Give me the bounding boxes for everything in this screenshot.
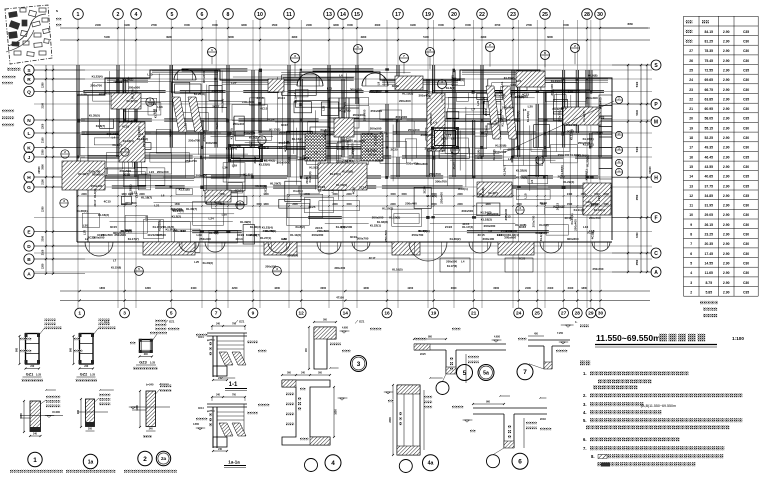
svg-text:3000: 3000 (493, 286, 499, 290)
svg-text:2C19: 2C19 (540, 201, 548, 205)
svg-text:KL11(4): KL11(4) (574, 208, 585, 212)
svg-text:KL6(9): KL6(9) (539, 223, 548, 227)
svg-text:200x600: 200x600 (370, 89, 382, 93)
svg-text:L6: L6 (161, 194, 165, 198)
svg-text:L26: L26 (284, 140, 290, 144)
svg-text:2.90: 2.90 (723, 146, 730, 150)
svg-text:1500: 1500 (175, 203, 181, 206)
svg-text:3900: 3900 (42, 164, 45, 170)
svg-text:75.45: 75.45 (705, 59, 714, 63)
svg-text:KL25(6): KL25(6) (342, 169, 353, 173)
svg-text:5100: 5100 (423, 35, 429, 39)
svg-text:L11: L11 (500, 81, 504, 86)
svg-text:KL38(6): KL38(6) (560, 165, 564, 176)
svg-text:29: 29 (588, 311, 594, 317)
svg-text:KL18(5): KL18(5) (229, 128, 233, 139)
svg-text:KL1(2): KL1(2) (209, 231, 218, 235)
svg-text:2.90: 2.90 (723, 165, 730, 169)
svg-text:L30: L30 (83, 224, 89, 228)
svg-text:GZ3: GZ3 (139, 361, 146, 365)
svg-text:L13: L13 (327, 87, 333, 91)
svg-text:11: 11 (689, 204, 693, 208)
svg-text:3: 3 (123, 311, 126, 317)
svg-text:2300: 2300 (389, 417, 392, 423)
svg-text:37.75: 37.75 (705, 184, 714, 188)
svg-text:7: 7 (215, 311, 218, 317)
svg-text:L13: L13 (134, 193, 138, 199)
svg-text:250x400: 250x400 (233, 122, 245, 126)
svg-text:300x600: 300x600 (202, 71, 206, 83)
svg-text:27: 27 (561, 311, 567, 317)
svg-text:L22: L22 (497, 233, 503, 237)
svg-text:L22: L22 (451, 136, 457, 140)
svg-text:3C25: 3C25 (308, 205, 316, 209)
svg-text:4C23: 4C23 (494, 119, 502, 123)
svg-text:250x600: 250x600 (370, 109, 382, 113)
svg-text:6.: 6. (583, 437, 587, 442)
svg-text:J: J (28, 155, 31, 161)
svg-text:C35: C35 (743, 184, 749, 188)
svg-text:L4: L4 (112, 135, 116, 139)
svg-text:KL11(9): KL11(9) (569, 129, 573, 140)
svg-text:KL26(8): KL26(8) (194, 92, 205, 96)
svg-text:19: 19 (689, 126, 693, 130)
svg-text:2400: 2400 (567, 193, 573, 196)
svg-text:43.55: 43.55 (705, 165, 714, 169)
svg-text:L21: L21 (561, 106, 567, 110)
svg-text:1900: 1900 (124, 23, 130, 27)
svg-text:15: 15 (689, 165, 693, 169)
svg-text:L21: L21 (516, 79, 522, 83)
svg-text:4200: 4200 (407, 286, 413, 290)
svg-text:24: 24 (689, 78, 693, 82)
svg-text:5: 5 (170, 311, 173, 317)
svg-text:(A,B)11.550~69.550m: (A,B)11.550~69.550m (641, 404, 676, 408)
svg-text:KL28(1): KL28(1) (585, 169, 589, 180)
svg-text:1500: 1500 (219, 193, 225, 196)
svg-text:1-1: 1-1 (229, 382, 238, 388)
svg-text:3C23: 3C23 (281, 123, 289, 127)
svg-text:63.85: 63.85 (705, 97, 714, 101)
svg-text:2400: 2400 (95, 23, 101, 27)
svg-text:250x700: 250x700 (89, 169, 101, 173)
svg-text:1:25: 1:25 (150, 361, 156, 365)
svg-text:KL35(3): KL35(3) (499, 109, 503, 120)
svg-text:L22: L22 (183, 123, 187, 129)
svg-text:L17: L17 (446, 133, 452, 137)
svg-text:KL32(9): KL32(9) (516, 168, 527, 172)
svg-text:1800: 1800 (145, 286, 151, 290)
svg-text:250x700: 250x700 (185, 159, 197, 163)
svg-text:29.05: 29.05 (705, 213, 714, 217)
svg-text:KL13(1): KL13(1) (299, 156, 310, 160)
svg-text:GZ1: GZ1 (26, 373, 33, 377)
svg-text:KL2(2): KL2(2) (172, 214, 181, 218)
svg-text:KL36(6): KL36(6) (453, 78, 464, 82)
svg-text:14.55: 14.55 (705, 262, 714, 266)
svg-text:1: 1 (33, 457, 37, 464)
svg-text:1500: 1500 (272, 23, 278, 27)
svg-text:250x700: 250x700 (593, 267, 604, 271)
svg-text:25: 25 (542, 12, 548, 18)
svg-text:2.90: 2.90 (723, 49, 730, 53)
svg-text:2400: 2400 (332, 203, 338, 206)
svg-text:53900: 53900 (648, 166, 652, 174)
svg-text:L29: L29 (568, 90, 574, 94)
svg-text:KL18(3): KL18(3) (481, 218, 492, 222)
svg-text:9: 9 (690, 223, 692, 227)
svg-text:3: 3 (357, 361, 361, 368)
svg-text:300x600: 300x600 (567, 237, 579, 241)
svg-text:4C24: 4C24 (97, 233, 105, 237)
svg-text:4C16: 4C16 (122, 125, 130, 129)
svg-text:250x600: 250x600 (495, 150, 507, 154)
svg-text:200x700: 200x700 (202, 130, 206, 142)
svg-text:H: H (654, 175, 658, 181)
svg-text:4C14: 4C14 (198, 336, 204, 339)
svg-text:b=240: b=240 (146, 383, 154, 387)
svg-text:C35: C35 (743, 290, 749, 294)
svg-text:4C20: 4C20 (215, 122, 219, 130)
svg-text:KL16(2): KL16(2) (292, 137, 303, 141)
svg-text:2C23: 2C23 (445, 225, 453, 229)
svg-text:KL10(9): KL10(9) (492, 149, 496, 160)
svg-text:KL18(7): KL18(7) (141, 196, 152, 200)
svg-text:N: N (56, 9, 58, 13)
svg-text:L20: L20 (82, 93, 88, 97)
svg-text:2C22: 2C22 (375, 159, 383, 163)
svg-text:250x400: 250x400 (91, 184, 103, 188)
svg-text:K: K (27, 145, 31, 151)
svg-text:200x700: 200x700 (592, 130, 604, 134)
svg-text:C: C (654, 251, 658, 257)
svg-text:8.75: 8.75 (705, 281, 712, 285)
svg-text:KL35(5): KL35(5) (89, 114, 100, 118)
svg-text:L14: L14 (450, 151, 454, 157)
svg-text:KL36(2): KL36(2) (450, 237, 461, 241)
svg-text:1200: 1200 (41, 82, 44, 88)
svg-text:1200: 1200 (42, 123, 45, 129)
svg-text:KL1(1): KL1(1) (539, 232, 543, 241)
svg-text:200x600: 200x600 (195, 174, 207, 178)
svg-text:2100: 2100 (41, 137, 44, 143)
svg-text:17: 17 (689, 146, 693, 150)
svg-text:3C21: 3C21 (286, 157, 290, 165)
svg-text:KL16(2): KL16(2) (153, 225, 164, 229)
svg-text:4C14: 4C14 (507, 147, 515, 151)
svg-text:2400: 2400 (548, 286, 554, 290)
svg-text:KL17(6): KL17(6) (447, 264, 457, 268)
svg-text:L9: L9 (499, 90, 503, 94)
svg-text:240: 240 (84, 365, 89, 368)
svg-text:L6: L6 (339, 73, 343, 77)
svg-text:2400: 2400 (81, 193, 87, 196)
svg-text:28: 28 (575, 311, 581, 317)
svg-text:C35: C35 (743, 175, 749, 179)
svg-text:L21: L21 (154, 203, 160, 207)
svg-text:KL16(7): KL16(7) (583, 143, 594, 147)
svg-text:7.250: 7.250 (557, 332, 564, 335)
svg-text:L30: L30 (223, 166, 229, 170)
svg-text:2400: 2400 (191, 286, 197, 290)
svg-text:KL21(1): KL21(1) (570, 214, 574, 225)
svg-text:1: 1 (78, 311, 81, 317)
svg-text:2.90: 2.90 (723, 184, 730, 188)
svg-text:KL17(4): KL17(4) (462, 225, 473, 229)
svg-text:200x400: 200x400 (157, 170, 169, 174)
svg-text:240: 240 (144, 353, 149, 356)
svg-text:1500: 1500 (212, 23, 218, 27)
svg-text:4C15: 4C15 (260, 107, 268, 111)
svg-text:1a: 1a (88, 459, 94, 465)
svg-text:B: B (27, 257, 31, 263)
svg-text:1:25: 1:25 (36, 373, 42, 377)
svg-text:L25: L25 (147, 73, 153, 77)
svg-text:3900: 3900 (481, 35, 487, 39)
svg-text:2.90: 2.90 (723, 252, 730, 256)
svg-text:21: 21 (689, 107, 693, 111)
svg-text:2.90: 2.90 (723, 107, 730, 111)
svg-text:KL2(3): KL2(3) (293, 189, 302, 193)
svg-text:3C23: 3C23 (519, 225, 527, 229)
svg-text:4.650: 4.650 (193, 423, 200, 426)
svg-text:KL3(5): KL3(5) (131, 89, 135, 98)
svg-text:C30: C30 (743, 40, 749, 44)
svg-text:4a: 4a (428, 461, 434, 467)
svg-text:1:100: 1:100 (732, 336, 744, 341)
svg-text:30: 30 (598, 311, 604, 317)
svg-text:3.: 3. (583, 402, 587, 407)
svg-text:M: M (654, 119, 658, 125)
svg-text:4C14: 4C14 (235, 237, 243, 241)
svg-text:L20: L20 (528, 105, 534, 109)
svg-text:17.45: 17.45 (705, 252, 714, 256)
svg-text:1650: 1650 (335, 409, 338, 415)
svg-text:1200: 1200 (42, 206, 45, 212)
svg-text:KL6(8): KL6(8) (481, 187, 485, 196)
svg-text:300x600: 300x600 (125, 201, 137, 205)
svg-text:KL4(4): KL4(4) (244, 172, 253, 176)
svg-text:KL4(8): KL4(8) (336, 225, 345, 229)
svg-text:200x700: 200x700 (531, 215, 535, 227)
svg-text:3300: 3300 (42, 235, 45, 241)
svg-text:2.90: 2.90 (723, 271, 730, 275)
svg-text:2C24: 2C24 (267, 118, 275, 122)
svg-text:C35: C35 (743, 30, 749, 34)
svg-text:C35: C35 (743, 97, 749, 101)
svg-text:40.65: 40.65 (705, 175, 714, 179)
svg-text:KL33(5): KL33(5) (137, 126, 141, 137)
svg-text:C30: C30 (743, 242, 749, 246)
svg-text:200x400: 200x400 (494, 93, 506, 97)
svg-text:A: A (27, 272, 31, 278)
svg-text:1500: 1500 (438, 23, 444, 27)
svg-text:L24: L24 (597, 196, 601, 202)
svg-text:L4: L4 (461, 259, 465, 263)
svg-text:C30: C30 (743, 126, 749, 130)
svg-text:5: 5 (463, 370, 467, 377)
svg-text:L13: L13 (83, 230, 87, 236)
svg-text:3: 3 (690, 281, 692, 285)
svg-text:1900: 1900 (410, 23, 416, 27)
svg-text:240: 240 (149, 428, 154, 431)
svg-text:72.55: 72.55 (705, 69, 714, 73)
svg-text:7: 7 (523, 369, 527, 376)
svg-text:KL3(7): KL3(7) (418, 229, 427, 233)
svg-text:2400: 2400 (568, 286, 574, 290)
svg-text:C30: C30 (743, 262, 749, 266)
svg-text:L19: L19 (145, 216, 149, 222)
svg-text:2: 2 (117, 12, 120, 18)
svg-text:200x600: 200x600 (484, 224, 496, 228)
svg-text:200x400: 200x400 (502, 106, 514, 110)
svg-text:5a: 5a (483, 370, 489, 376)
svg-text:250x400: 250x400 (406, 162, 418, 166)
svg-text:5.85: 5.85 (705, 290, 712, 294)
svg-text:3300: 3300 (333, 23, 339, 27)
svg-text:KL35(7): KL35(7) (504, 76, 515, 80)
svg-text:1.: 1. (583, 371, 587, 376)
svg-text:250x500: 250x500 (501, 229, 513, 233)
svg-text:C30: C30 (743, 252, 749, 256)
svg-text:25: 25 (535, 311, 541, 317)
svg-text:2C21: 2C21 (115, 80, 123, 84)
svg-text:4200: 4200 (363, 286, 369, 290)
svg-text:4C16: 4C16 (351, 187, 355, 195)
svg-text:KL6(7): KL6(7) (96, 124, 105, 128)
svg-text:11: 11 (286, 12, 292, 18)
svg-text:81.25: 81.25 (705, 40, 714, 44)
svg-text:KL40(3): KL40(3) (250, 225, 261, 229)
svg-text:66.75: 66.75 (705, 88, 714, 92)
svg-text:KL5(1): KL5(1) (249, 135, 258, 139)
svg-text:2.90: 2.90 (723, 30, 730, 34)
svg-text:3C17: 3C17 (249, 141, 253, 149)
svg-text:2C23: 2C23 (305, 176, 309, 184)
svg-text:L9: L9 (376, 82, 380, 86)
svg-text:2.90: 2.90 (723, 281, 730, 285)
svg-text:26: 26 (689, 59, 693, 63)
svg-text:13: 13 (326, 12, 332, 18)
svg-text:200x400: 200x400 (565, 123, 577, 127)
svg-text:2C14: 2C14 (359, 186, 367, 190)
svg-text:200x400: 200x400 (353, 113, 365, 117)
svg-text:300x400: 300x400 (418, 94, 430, 98)
svg-text:KL22(6): KL22(6) (495, 143, 506, 147)
svg-text:KL30(3): KL30(3) (203, 261, 213, 265)
svg-text:KL25(7): KL25(7) (345, 138, 349, 149)
svg-text:3C25: 3C25 (392, 84, 400, 88)
svg-text:900: 900 (77, 409, 80, 414)
svg-text:KL2(1): KL2(1) (458, 187, 467, 191)
svg-text:2400: 2400 (292, 203, 298, 206)
svg-text:2.90: 2.90 (723, 78, 730, 82)
svg-text:27: 27 (689, 49, 693, 53)
svg-text:3C15: 3C15 (110, 225, 118, 229)
svg-text:6600: 6600 (228, 35, 234, 39)
svg-text:2.90: 2.90 (723, 40, 730, 44)
svg-text:11.550~69.550m: 11.550~69.550m (596, 333, 661, 343)
svg-text:KL22(1): KL22(1) (370, 223, 381, 227)
svg-text:1500: 1500 (581, 193, 587, 196)
svg-text:2400: 2400 (457, 193, 463, 196)
svg-text:23.25: 23.25 (705, 233, 714, 237)
svg-text:3300: 3300 (375, 23, 381, 27)
svg-text:300x500: 300x500 (206, 141, 218, 145)
svg-text:10: 10 (257, 12, 263, 18)
svg-text:KL40(1): KL40(1) (594, 208, 605, 212)
svg-text:58.05: 58.05 (705, 117, 714, 121)
svg-text:3900: 3900 (361, 35, 367, 39)
svg-text:KL12(7): KL12(7) (582, 111, 586, 122)
svg-text:250x400: 250x400 (440, 192, 444, 204)
svg-text:4C15: 4C15 (440, 145, 444, 153)
svg-text:1500: 1500 (563, 23, 569, 27)
svg-text:4200: 4200 (274, 286, 280, 290)
svg-text:L29: L29 (197, 233, 203, 237)
svg-text:KL1(4): KL1(4) (476, 150, 480, 159)
svg-text:C30: C30 (743, 204, 749, 208)
svg-text:250x600: 250x600 (114, 233, 126, 237)
svg-text:17: 17 (395, 12, 401, 18)
svg-text:9: 9 (252, 311, 255, 317)
svg-text:2.90: 2.90 (723, 136, 730, 140)
svg-text:25: 25 (689, 69, 693, 73)
svg-text:21: 21 (471, 311, 477, 317)
svg-text:2700: 2700 (151, 23, 157, 27)
svg-text:L21: L21 (476, 100, 480, 106)
svg-text:49.35: 49.35 (705, 146, 714, 150)
svg-text:200x500: 200x500 (372, 216, 384, 220)
svg-text:1: 1 (77, 12, 80, 18)
svg-text:20: 20 (451, 12, 457, 18)
svg-text:2.90: 2.90 (723, 88, 730, 92)
svg-text:69.65: 69.65 (705, 78, 714, 82)
svg-text:KL35(3): KL35(3) (586, 156, 590, 167)
svg-text:14: 14 (689, 175, 693, 179)
svg-text:2100: 2100 (42, 179, 45, 185)
svg-text:KL27(1): KL27(1) (330, 172, 341, 176)
svg-text:2400: 2400 (525, 286, 531, 290)
svg-text:L15: L15 (523, 193, 527, 199)
svg-text:L4: L4 (433, 121, 437, 125)
svg-text:1800: 1800 (485, 203, 491, 206)
svg-text:8: 8 (690, 233, 692, 237)
svg-text:5: 5 (690, 262, 692, 266)
svg-text:KL9(7): KL9(7) (113, 143, 122, 147)
svg-text:13: 13 (689, 184, 693, 188)
svg-text:26.15: 26.15 (705, 223, 714, 227)
svg-text:1500: 1500 (465, 23, 471, 27)
svg-text:200x400: 200x400 (173, 229, 185, 233)
svg-text:R: R (27, 77, 31, 83)
svg-text:2C25: 2C25 (420, 353, 426, 356)
svg-text:A: A (654, 270, 658, 276)
svg-text:3C20: 3C20 (169, 130, 173, 138)
svg-text:2.90: 2.90 (723, 97, 730, 101)
svg-text:C35: C35 (743, 69, 749, 73)
svg-text:5400: 5400 (636, 109, 639, 115)
svg-text:C30: C30 (743, 136, 749, 140)
svg-text:1500: 1500 (603, 193, 609, 196)
svg-text:16: 16 (689, 155, 693, 159)
svg-text:KL13(9): KL13(9) (373, 134, 377, 145)
svg-text:60.95: 60.95 (705, 107, 714, 111)
svg-text:11.65: 11.65 (705, 271, 713, 275)
svg-text:KL8(2): KL8(2) (296, 225, 305, 229)
svg-text:19: 19 (425, 12, 431, 18)
svg-text:H: H (27, 175, 31, 181)
